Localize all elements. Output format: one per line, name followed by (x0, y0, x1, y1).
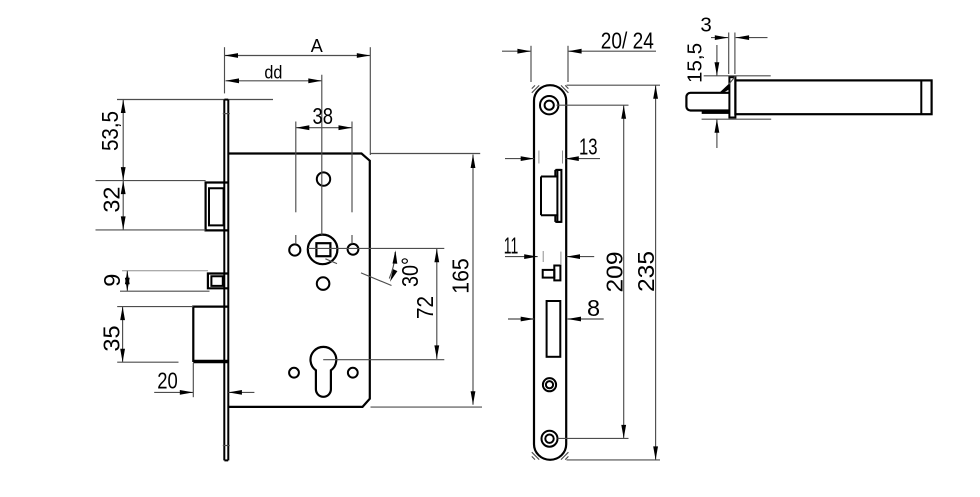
dimension 209 (602, 105, 628, 438)
nose bevel strip (702, 110, 730, 114)
extension 235 bottom (567, 459, 661, 461)
dimension 9 (99, 271, 130, 291)
svg-text:32: 32 (99, 187, 125, 213)
extension aux latch bottom (120, 290, 210, 292)
corner hatch bottom right (561, 452, 568, 459)
corner hatch top right (561, 85, 568, 92)
extension 209 bottom (558, 437, 629, 439)
corner hatch bottom left (532, 452, 539, 459)
extension deadbolt bottom (117, 361, 178, 363)
30 degree reference line (325, 259, 391, 286)
svg-text:15,5: 15,5 (684, 43, 707, 83)
svg-text:165: 165 (448, 258, 474, 294)
extension line A right (369, 47, 371, 155)
extension 3 right (734, 33, 736, 75)
extension deadbolt top (117, 306, 193, 308)
spindle square (316, 243, 330, 256)
body top extension line (371, 153, 481, 155)
extension 3 left (728, 33, 730, 75)
spindle centre line (321, 75, 323, 235)
30 degree arc with arrows (389, 250, 397, 281)
tick 13 left (538, 151, 540, 164)
dimension 35 (99, 307, 126, 363)
deadbolt side view (543, 266, 561, 281)
extension 38 right (351, 122, 353, 244)
bevel wedge (719, 83, 730, 94)
forend plate outline (534, 85, 566, 460)
svg-text:72: 72 (412, 296, 438, 319)
hole left of cylinder (289, 368, 299, 378)
svg-text:235: 235 (633, 251, 659, 292)
latch bolt front (206, 183, 229, 231)
extension line A left (224, 47, 226, 93)
middle screw hole (543, 378, 556, 391)
dimension 8 (508, 295, 604, 321)
bottom screw hole (542, 431, 558, 447)
extension 20/24 right (567, 46, 569, 82)
extension 20/24 left (530, 46, 532, 82)
dimension A (225, 36, 371, 58)
faceplate tick top (223, 113, 230, 115)
spindle horizontal extension (308, 247, 444, 249)
dimension 20 (154, 367, 254, 394)
slot in forend (547, 301, 561, 357)
latch side view (541, 170, 561, 222)
hole right of spindle (348, 244, 359, 255)
dimension 38 (296, 103, 352, 130)
body bottom extension line (371, 406, 483, 408)
extension 209 top (557, 104, 629, 106)
hole right of cylinder (348, 368, 358, 378)
dimension 165 (448, 155, 476, 405)
dimension 11 (504, 233, 594, 260)
dimension 3 (700, 14, 767, 40)
extension aux latch top (122, 270, 208, 272)
svg-text:53,5: 53,5 (97, 111, 123, 151)
tick 11 left (542, 251, 544, 262)
hole below spindle (317, 277, 330, 290)
dimension dd (226, 63, 322, 84)
dimension 235 (633, 85, 659, 460)
svg-text:13: 13 (579, 134, 598, 160)
latch bolt nose (686, 93, 729, 111)
dimension 72 (412, 249, 439, 359)
bevel thin diagonal (729, 76, 736, 84)
faceplate front strip (224, 100, 228, 461)
extension 235 top (567, 84, 661, 86)
dimension 15,5 (684, 43, 720, 148)
svg-text:dd: dd (264, 63, 282, 83)
dimension 13 (505, 134, 600, 162)
deadbolt front (193, 307, 228, 362)
hole above spindle (317, 172, 330, 185)
extension 15,5 top (704, 75, 771, 77)
tick 13 right (562, 151, 564, 164)
extension 38 left (295, 122, 297, 245)
svg-text:11: 11 (504, 233, 519, 259)
svg-text:8: 8 (587, 295, 600, 321)
lock body outline (229, 154, 370, 407)
deadbolt face extension line (192, 363, 194, 397)
shaft end cap (920, 80, 922, 114)
dimension 32 (99, 181, 126, 230)
cylinder horizontal extension (323, 359, 444, 361)
svg-text:3: 3 (700, 14, 711, 37)
svg-text:A: A (311, 36, 323, 56)
dimension 53,5 (97, 100, 126, 181)
top screw hole (540, 96, 558, 114)
svg-text:209: 209 (602, 252, 628, 293)
corner hatch top left (532, 85, 539, 92)
extension latch bottom (96, 229, 206, 231)
dimension 20/24 (502, 28, 656, 54)
euro cylinder keyhole (311, 347, 337, 397)
extension line top of faceplate (117, 99, 273, 101)
svg-text:20/ 24: 20/ 24 (601, 28, 654, 54)
tick 11 right (560, 252, 562, 265)
svg-text:30°: 30° (397, 257, 423, 287)
svg-text:35: 35 (99, 325, 125, 351)
extension latch top (96, 180, 206, 182)
svg-text:9: 9 (99, 274, 125, 287)
faceplate tick bottom (223, 445, 230, 447)
auxiliary latch front (208, 274, 228, 289)
svg-text:38: 38 (313, 103, 334, 129)
svg-text:20: 20 (157, 367, 178, 393)
hole left of spindle (289, 244, 300, 255)
latch bolt shaft (735, 80, 931, 114)
extension 15,5 bottom (702, 118, 772, 120)
spindle follower circle (308, 235, 338, 265)
forend cross-section (729, 77, 735, 117)
